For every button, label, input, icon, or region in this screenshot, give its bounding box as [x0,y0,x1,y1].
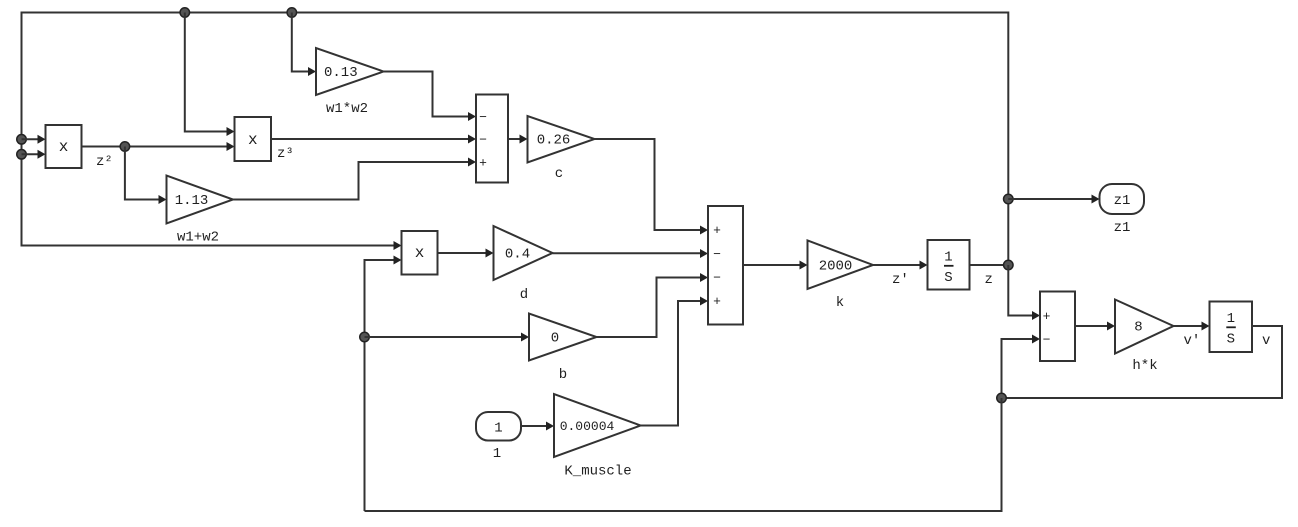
wire bottom feedback v up to product x(d) input 2 [365,256,402,512]
sum block 1 (- - +) [476,95,508,183]
gain 1.13 (w1+w2) [167,176,234,224]
node junction on top wire feeding gain 0.13 [287,8,297,18]
svg-text:8: 8 [1134,320,1142,336]
svg-text:c: c [555,166,563,182]
wire sum3 output to gain 8 [1075,322,1115,331]
integrator block 1/S (v) [1210,302,1253,353]
gain 0 (b) [529,314,597,361]
wire gain 0.26 output to sum2 input 1 [595,139,709,235]
svg-text:b: b [559,367,567,383]
wire z^2 output to product z^3 input 2 [82,142,235,151]
svg-text:1: 1 [493,446,501,462]
svg-text:x: x [59,138,69,156]
product block x (d input) [402,231,438,275]
wire product z^3 output to sum1 input 2 [271,135,476,144]
wire from junction into gain 0 [365,333,530,342]
svg-text:+: + [1043,309,1051,324]
svg-text:k: k [836,295,844,311]
svg-text:+: + [479,156,487,171]
svg-text:0.26: 0.26 [537,133,571,149]
svg-text:−: − [1043,333,1051,348]
svg-text:x: x [415,244,425,262]
svg-text:1: 1 [944,250,952,266]
svg-text:S: S [944,270,952,286]
svg-text:z1: z1 [1114,220,1131,236]
svg-text:v': v' [1184,333,1201,349]
svg-text:v: v [1262,333,1270,349]
svg-text:z³: z³ [277,146,294,162]
svg-text:w1+w2: w1+w2 [177,230,219,246]
svg-text:+: + [713,223,721,238]
wire gain 1.13 output to sum1 input 3 [233,158,476,200]
svg-text:−: − [713,247,721,262]
output oval z1 [1100,184,1145,214]
wire v feedback down and left along bottom [365,398,1002,511]
node junction on top wire feeding z^3 product [180,8,190,18]
wire from z^2 junction down into gain 1.13 [125,147,167,205]
svg-text:z: z [985,272,993,288]
svg-text:−: − [479,110,487,125]
node junction on bottom feedback feeding gain 0 [360,332,370,342]
node junction left vertical first tap [17,135,27,145]
wire tap into product z^2 input 1 [22,135,46,144]
svg-text:0.00004: 0.00004 [560,419,615,434]
svg-text:K_muscle: K_muscle [564,464,631,480]
svg-text:−: − [713,271,721,286]
wire z down to sum3 input 1 [1008,265,1040,320]
wire tap into product z^2 input 2 [22,150,46,159]
svg-text:z²: z² [96,154,113,170]
wire v feedback up to sum3 input 2 [1002,335,1041,399]
gain 8 (h*k) [1115,300,1174,354]
source constant 1 oval [476,412,521,441]
svg-text:w1*w2: w1*w2 [326,101,368,117]
svg-text:−: − [479,133,487,148]
svg-text:S: S [1227,332,1235,348]
wire z branch to output oval z1 [1008,195,1099,204]
node junction on z^2 output [120,142,129,152]
wire constant 1 to gain K_muscle [521,422,554,431]
svg-text:h*k: h*k [1132,358,1157,374]
product block x (z^2) [46,125,82,168]
gain 0.13 (w1*w2) [316,48,384,95]
sum block 2 (+ - - +) [708,206,743,325]
wire gain 0.13 output to sum1 input 1 [384,72,477,122]
wire product x(d) output to gain 0.4 [438,249,494,258]
svg-text:1.13: 1.13 [175,193,209,209]
sum block 3 (+ -) [1040,292,1075,362]
svg-text:0.4: 0.4 [505,247,530,263]
svg-text:x: x [248,131,258,149]
integrator block 1/S (z) [928,240,970,290]
wire gain 8 output to integrator 1/S (v) [1174,322,1210,331]
gain 0.00004 (K_muscle) [554,394,641,457]
gain 2000 (k) [808,241,874,290]
node junction z output [1004,260,1014,270]
node junction v feedback [997,393,1007,403]
svg-text:+: + [713,294,721,309]
wire gain 0.4 output to sum2 input 2 [553,249,709,258]
wire gain 2000 output to integrator 1/S [873,261,928,270]
gain 0.26 (c) [528,116,595,163]
svg-text:1: 1 [1227,311,1235,327]
node junction left vertical second tap [17,150,27,160]
svg-text:d: d [520,287,528,303]
svg-text:z': z' [892,272,909,288]
svg-text:2000: 2000 [819,259,853,275]
svg-text:z1: z1 [1114,193,1131,209]
gain 0.4 (d) [494,226,553,280]
wire v output feedback loop right and back to junction [1002,326,1283,398]
product block x (z^3) [235,117,272,161]
wire main feedback loop z: from integrator output up, across top, down left side, to product x(d) [22,13,1009,266]
svg-text:0: 0 [551,331,559,347]
wire sum2 output to gain 2000 [743,261,808,270]
wire from top junction down into product z^3 first input [185,13,235,137]
svg-text:1: 1 [494,421,502,437]
svg-text:0.13: 0.13 [324,65,358,81]
node junction z1 branch [1004,194,1014,204]
wire gain 0 output to sum2 input 3 [597,273,709,337]
wire from top junction down into gain 0.13 [292,13,316,77]
wire sum1 output to gain 0.26 [508,135,528,144]
wire gain K_muscle output to sum2 input 4 [641,297,709,426]
